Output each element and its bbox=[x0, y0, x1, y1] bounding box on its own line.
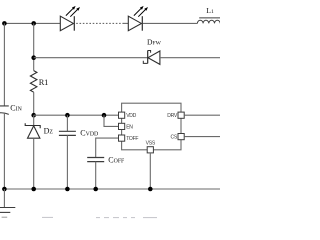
wire DRV output bbox=[184, 114, 220, 116]
LED D1 bbox=[60, 6, 80, 31]
wire row2 left of DFW bbox=[34, 57, 148, 59]
wire VDD net horizontal bbox=[34, 114, 119, 116]
svg-text:COFF: COFF bbox=[108, 156, 125, 165]
node row2 junction bbox=[31, 55, 36, 60]
inductor L1 bbox=[197, 18, 225, 24]
label CIN bbox=[10, 104, 22, 113]
node top junction B bbox=[31, 21, 36, 26]
pin EN bbox=[119, 123, 134, 130]
wire LED2 to inductor bbox=[143, 22, 197, 24]
zener diode DZ bbox=[25, 115, 40, 189]
node rail DZ bbox=[31, 187, 36, 192]
ground bbox=[0, 189, 15, 217]
label CVDD bbox=[80, 129, 98, 138]
node rail CVDD bbox=[65, 187, 70, 192]
node rail COFF bbox=[93, 187, 98, 192]
svg-text:L1: L1 bbox=[206, 6, 214, 15]
node VDD net left bbox=[31, 113, 36, 118]
wire row2 right of DFW bbox=[160, 57, 220, 59]
svg-text:VDD: VDD bbox=[126, 113, 136, 119]
wire ground rail bbox=[4, 188, 220, 190]
node rail CIN bbox=[2, 187, 7, 192]
wire into LED2 bbox=[124, 22, 129, 24]
svg-text:CVDD: CVDD bbox=[80, 129, 98, 138]
op-amp U1 IC body bbox=[122, 103, 181, 150]
resistor R1 bbox=[30, 71, 37, 93]
wire R1 to node bbox=[33, 92, 35, 115]
label COFF bbox=[108, 156, 125, 165]
svg-text:VSS: VSS bbox=[146, 141, 156, 147]
capacitor CIN bbox=[0, 106, 9, 189]
svg-text:DRV: DRV bbox=[167, 113, 178, 119]
wire CS output bbox=[184, 136, 220, 138]
node rail VSS bbox=[148, 187, 153, 192]
svg-text:R1: R1 bbox=[39, 78, 48, 87]
pin VDD bbox=[119, 112, 137, 119]
LED D2 bbox=[128, 6, 148, 31]
wire top rail left segment bbox=[4, 22, 60, 24]
wire TOFF branch bbox=[96, 138, 119, 157]
label R1 bbox=[39, 78, 48, 87]
svg-text:EN: EN bbox=[126, 125, 133, 131]
wire dashed LED1 to LED2 bbox=[76, 22, 124, 24]
schottky diode DFW bbox=[143, 51, 160, 65]
svg-text:CIN: CIN bbox=[10, 104, 22, 113]
pin VSS bbox=[146, 141, 156, 153]
svg-text:DZ: DZ bbox=[44, 127, 54, 136]
pin CS bbox=[171, 134, 185, 141]
node CVDD junction bbox=[65, 113, 70, 118]
wire second column upper bbox=[33, 23, 35, 70]
pin DRV bbox=[167, 112, 184, 119]
label L1 bbox=[206, 6, 214, 15]
node top-left junction bbox=[2, 21, 7, 26]
wire EN branch bbox=[104, 115, 118, 126]
node EN junction bbox=[102, 113, 107, 118]
svg-text:TOFF: TOFF bbox=[126, 136, 138, 142]
capacitor CVDD bbox=[59, 115, 76, 189]
label DZ bbox=[44, 127, 54, 136]
wire left column (input) bbox=[3, 23, 5, 106]
caption fragment (clipped text at bottom) bbox=[42, 216, 157, 218]
label DFW bbox=[147, 38, 162, 47]
svg-text:CS: CS bbox=[171, 135, 178, 141]
pin TOFF bbox=[119, 135, 139, 142]
capacitor COFF bbox=[87, 158, 104, 190]
svg-text:DFW: DFW bbox=[147, 38, 162, 47]
wire VSS to ground bbox=[149, 153, 151, 189]
